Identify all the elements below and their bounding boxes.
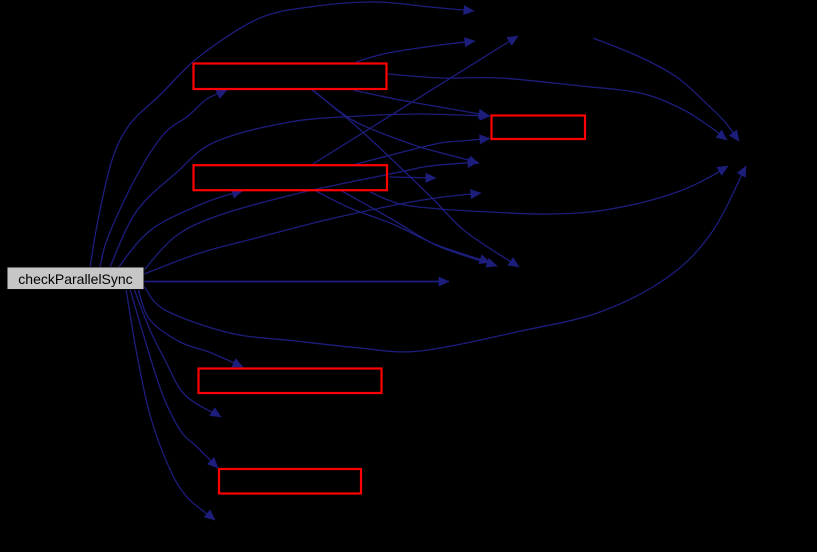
edge box C->node fn7a (second) xyxy=(342,191,497,266)
edge checkParallelSync->node fn10 xyxy=(126,289,215,520)
node checkParallelSync (grey filled box) xyxy=(7,267,144,290)
edge checkParallelSync->box E xyxy=(130,289,218,468)
edge box A->node fn5 (second arrow) xyxy=(313,90,479,164)
edge checkParallelSync->node fn1 (top arc) xyxy=(90,2,474,268)
edge box A->node P xyxy=(388,74,727,140)
node box B (red outlined callee) xyxy=(492,116,586,140)
edge box A->node fn2 xyxy=(356,41,475,62)
svg-text:checkParallelSync: checkParallelSync xyxy=(18,271,132,287)
edge checkParallelSync->node fn5 xyxy=(144,162,478,270)
edge box A->node fn7b xyxy=(311,89,519,267)
edge box C->node Q (long dip) xyxy=(370,166,728,214)
edge checkParallelSync->box A xyxy=(100,90,227,267)
node box C (red outlined callee) xyxy=(194,165,388,190)
node box D (red outlined callee) xyxy=(199,369,382,394)
edge box C->node fn7a (first) xyxy=(316,191,490,263)
edge box C->box B xyxy=(353,139,490,166)
node box E (red outlined callee) xyxy=(219,469,361,494)
edge checkParallelSync->node fn8 (horizontal) xyxy=(144,281,449,283)
edge checkParallelSync->node fn6 xyxy=(144,193,481,274)
edge box C->node fn4 xyxy=(389,177,436,178)
node box A (red outlined callee) xyxy=(194,64,387,90)
edge checkParallelSync->box B xyxy=(110,114,490,267)
edge checkParallelSync->node fn9 xyxy=(134,289,221,417)
edge box C->node fn3 xyxy=(313,36,518,164)
edge box A->box B xyxy=(353,90,489,116)
edge checkParallelSync->box D xyxy=(138,289,243,367)
edge node fn2->node P xyxy=(593,38,739,141)
edge checkParallelSync->node Q (bottom swoop) xyxy=(144,166,746,352)
edge checkParallelSync->box C xyxy=(118,191,243,268)
